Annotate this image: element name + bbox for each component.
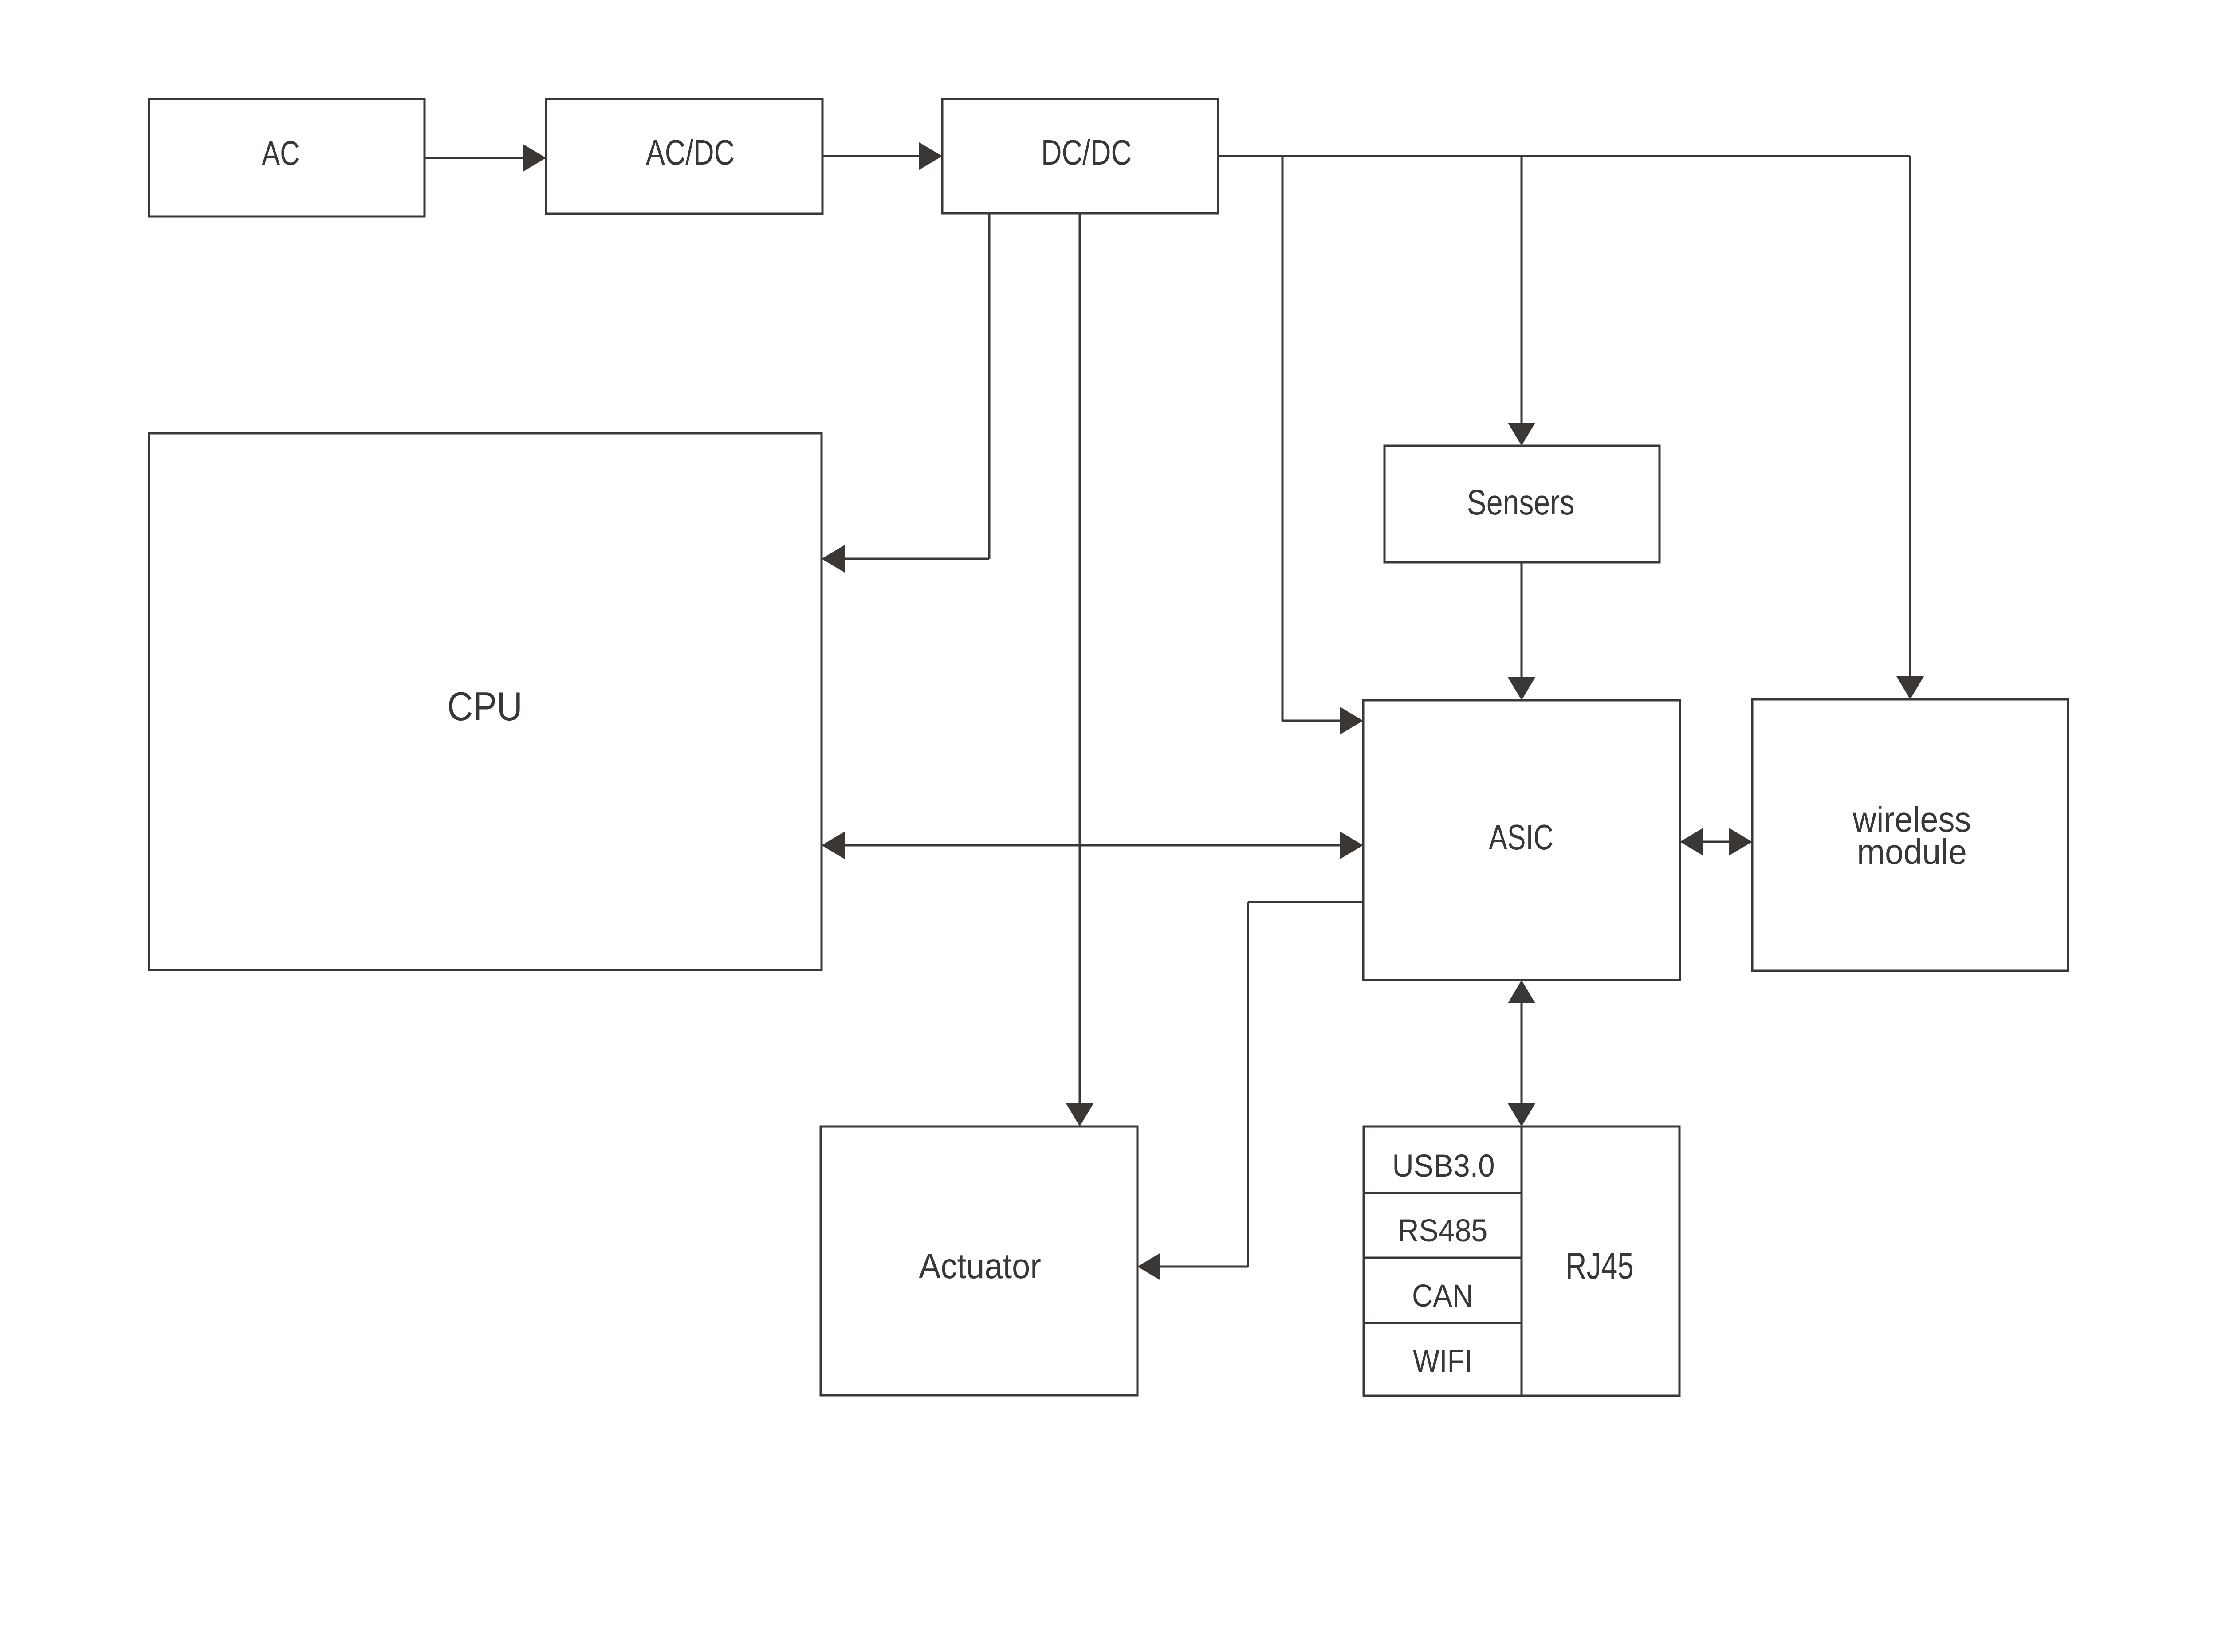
svg-text:Actuator: Actuator — [919, 1246, 1041, 1286]
svg-text:RS485: RS485 — [1398, 1213, 1488, 1248]
svg-text:AC: AC — [262, 134, 300, 172]
svg-text:RJ45: RJ45 — [1565, 1245, 1634, 1287]
svg-text:WIFI: WIFI — [1413, 1344, 1472, 1379]
svg-text:module: module — [1857, 832, 1967, 871]
svg-text:USB3.0: USB3.0 — [1392, 1148, 1494, 1183]
svg-text:ASIC: ASIC — [1489, 818, 1553, 857]
svg-text:CAN: CAN — [1412, 1279, 1473, 1314]
svg-text:AC/DC: AC/DC — [646, 133, 735, 172]
svg-text:Sensers: Sensers — [1467, 483, 1574, 522]
svg-text:CPU: CPU — [447, 684, 523, 729]
svg-text:DC/DC: DC/DC — [1041, 133, 1132, 172]
